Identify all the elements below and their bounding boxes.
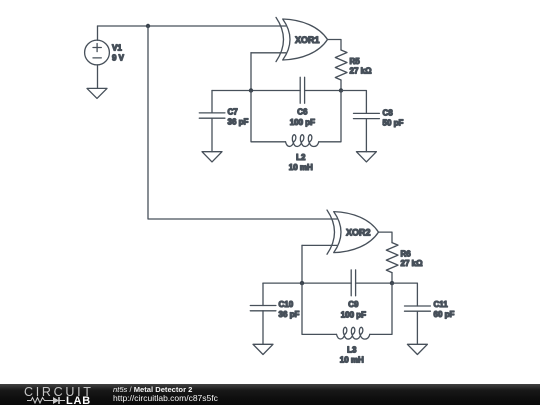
svg-text:100 pF: 100 pF — [341, 310, 366, 319]
node C junction dot under R6 — [390, 281, 394, 285]
label L3 10 mH — [340, 345, 364, 364]
label C6 100 pF — [290, 107, 315, 127]
node A junction dot on top rail — [146, 24, 150, 28]
wire XOR2 input B — [302, 244, 337, 246]
node junction dot left tank 2 — [300, 281, 304, 285]
svg-text:C6: C6 — [297, 107, 308, 116]
wire node C to C11 — [392, 283, 417, 306]
svg-text:C7: C7 — [228, 108, 239, 117]
svg-text:C9: C9 — [348, 300, 359, 309]
capacitor C11 — [405, 306, 431, 344]
svg-text:100 pF: 100 pF — [290, 118, 315, 127]
svg-text:L3: L3 — [347, 345, 357, 354]
svg-text:50 pF: 50 pF — [383, 118, 404, 127]
capacitor C9 — [351, 270, 355, 296]
logo resistor + diode glyph — [27, 396, 89, 404]
label R6 27 kOhm — [401, 250, 424, 269]
ground below C11 — [407, 344, 427, 354]
CircuitLab logo wordmark CIRCUIT — [24, 385, 94, 399]
wire C9 to node C — [356, 282, 392, 284]
wire from node A down and right to XOR2 input A — [148, 26, 337, 219]
svg-text:36 pF: 36 pF — [279, 310, 300, 319]
svg-text:R5: R5 — [350, 57, 361, 66]
svg-text:10 mH: 10 mH — [289, 163, 313, 172]
wire R5 to node B — [340, 80, 342, 91]
footer credit text — [113, 385, 218, 403]
ground below C8 — [356, 152, 376, 162]
svg-text:C8: C8 — [383, 109, 394, 118]
label C10 36 pF — [279, 300, 300, 319]
label V1 9 V — [112, 44, 125, 63]
wire L2 right up to node B — [319, 91, 341, 142]
label C8 50 pF — [383, 109, 404, 128]
resistor R5 — [335, 50, 347, 80]
capacitor C7 — [199, 91, 225, 152]
XOR2 extra input arc — [327, 210, 335, 254]
wire XOR1 output to R5 — [328, 40, 342, 51]
node junction dot left tank — [249, 88, 253, 92]
wire node B to C8 — [341, 91, 366, 114]
svg-text:27 kΩ: 27 kΩ — [350, 67, 373, 76]
svg-text:60 pF: 60 pF — [434, 310, 455, 319]
wire left tank node 2 down to L3 — [302, 283, 337, 334]
XOR1 extra input arc — [276, 17, 284, 61]
wire tank row C10 to C9 — [263, 282, 351, 284]
label L2 10 mH — [289, 153, 313, 172]
wire XOR2 input B down to tank node — [301, 245, 303, 283]
inductor L3 — [337, 327, 370, 339]
resistor R6 — [386, 243, 398, 273]
wire R6 to node C — [391, 273, 393, 284]
capacitor C6 — [300, 77, 304, 103]
svg-text:R6: R6 — [401, 250, 412, 259]
svg-text:C10: C10 — [279, 300, 294, 309]
node B junction dot under R5 — [339, 88, 343, 92]
wire XOR1 input B — [251, 52, 286, 54]
svg-text:10 mH: 10 mH — [340, 355, 364, 364]
wire top rail from V1 to XOR1 input A — [98, 25, 286, 27]
label C9 100 pF — [341, 300, 366, 320]
wire XOR2 output to R6 — [379, 232, 393, 243]
svg-text:27 kΩ: 27 kΩ — [401, 259, 424, 268]
svg-text:9 V: 9 V — [112, 54, 125, 63]
inductor L2 — [286, 135, 319, 147]
wire input B down to tank node — [250, 53, 252, 91]
capacitor C8 — [354, 113, 380, 151]
label C7 36 pF — [228, 108, 249, 127]
wire left tank node down to L2 — [251, 91, 286, 142]
wire C6 to node B — [305, 90, 341, 92]
svg-text:XOR2: XOR2 — [346, 227, 371, 237]
CircuitLab logo LAB — [66, 395, 91, 407]
op-amp XOR2 gate body — [334, 212, 379, 253]
op-amp XOR1 gate body — [283, 19, 328, 60]
label R5 27 kOhm — [350, 57, 373, 76]
wire tank row left segment C7 to C6 — [212, 90, 300, 92]
capacitor C10 — [250, 283, 276, 344]
svg-text:V1: V1 — [112, 44, 122, 53]
voltage source V1 — [85, 26, 110, 88]
svg-text:L2: L2 — [296, 153, 306, 162]
wire L3 right up to node C — [370, 283, 392, 334]
svg-text:36 pF: 36 pF — [228, 117, 249, 126]
ground below C10 — [253, 344, 273, 354]
svg-text:XOR1: XOR1 — [295, 35, 320, 45]
ground below V1 — [87, 88, 107, 98]
label C11 60 pF — [434, 300, 455, 319]
svg-text:C11: C11 — [434, 300, 449, 309]
ground below C7 — [202, 152, 222, 162]
